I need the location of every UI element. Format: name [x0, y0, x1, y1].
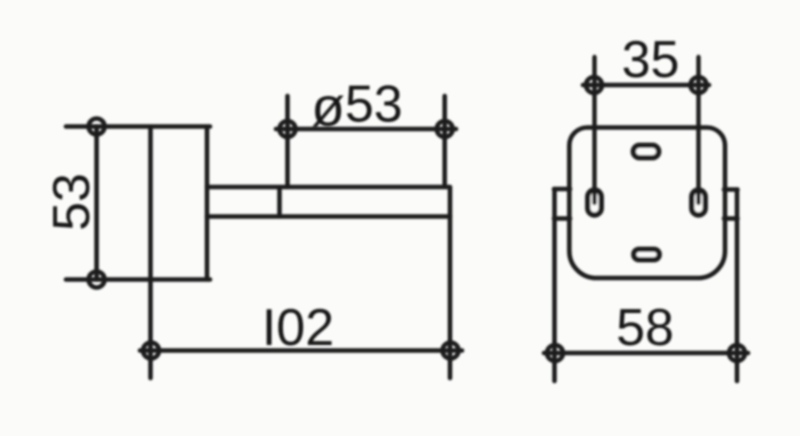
node dimension circle 58 left	[547, 345, 563, 361]
node dimension circle diameter53 left	[280, 121, 296, 137]
wire arm right edge and 102 right extension	[448, 187, 453, 378]
svg-text:35: 35	[622, 31, 680, 89]
plate front view rounded square	[569, 128, 725, 279]
wire plate right edge side view	[205, 127, 210, 280]
node dimension circle 35 left	[586, 77, 602, 93]
node dimension circle bottom-left	[89, 272, 105, 288]
wire diameter 53 dimension line	[276, 127, 456, 132]
node dimension circle 102 right	[443, 343, 459, 359]
wire diameter53 right extension	[442, 96, 447, 187]
wire arm divider	[277, 187, 282, 217]
svg-text:58: 58	[616, 299, 674, 357]
right tab top edge	[724, 187, 738, 192]
left tab bottom edge	[554, 216, 570, 221]
wire 102 dimension line	[140, 348, 462, 353]
node dimension circle 35 right	[691, 77, 707, 93]
node dimension circle top-left	[89, 119, 105, 135]
wire left tab outer edge and 58 extension	[552, 189, 557, 381]
wire 35 left extension into slot	[592, 57, 596, 203]
wire diameter53 left extension	[285, 96, 290, 187]
svg-text:53: 53	[43, 173, 101, 231]
slot bottom horizontal	[634, 249, 659, 259]
screw slot left vertical	[588, 190, 602, 215]
wire plate divider and 102 left extension	[148, 127, 153, 379]
right tab bottom edge	[724, 216, 738, 221]
wire vertical dimension line 53	[94, 127, 99, 280]
node dimension circle 102 left	[143, 343, 159, 359]
wire arm bottom edge	[207, 214, 450, 219]
node dimension circle diameter53 right	[437, 121, 453, 137]
wire bottom extension line left view	[66, 277, 210, 282]
node dimension circle 58 right	[729, 345, 745, 361]
wire 35 right extension into slot	[696, 57, 700, 203]
svg-text:ø53: ø53	[311, 76, 402, 138]
slot top horizontal	[633, 145, 658, 157]
svg-text:I02: I02	[262, 299, 334, 357]
wire top extension line left view	[66, 124, 210, 129]
wire 58 dimension line	[544, 351, 748, 356]
wire 35 dimension line	[583, 83, 709, 88]
wire right tab outer edge and 58 extension	[735, 190, 740, 382]
left tab top edge	[554, 187, 570, 192]
wire arm top edge	[207, 185, 449, 190]
screw slot right vertical	[692, 190, 706, 215]
